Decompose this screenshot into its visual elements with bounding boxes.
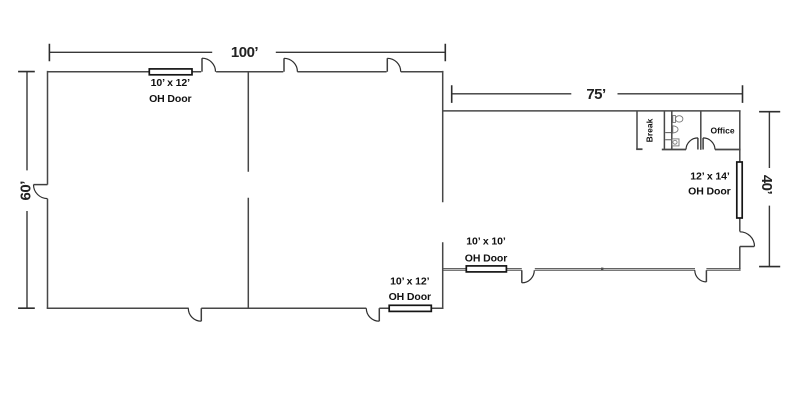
closet shelves [665,133,671,140]
bath door D10 [686,138,698,150]
vanity [672,139,679,146]
right building bottom wall (double line) [443,269,741,271]
svg-text:Office: Office [710,126,734,136]
dimension 100' ticks [49,44,445,61]
door D6 bottom wall [366,308,379,321]
break room right wall [663,111,665,150]
wall joint dot [601,268,603,270]
svg-text:OH Door: OH Door [465,252,507,264]
dimension 60' line [26,72,28,309]
door D5 bottom wall [188,308,201,321]
door D4 left wall [34,185,48,199]
svg-text:12’ x 14’: 12’ x 14’ [690,171,730,183]
door D8 bottom wall right building [522,270,535,283]
svg-text:OH Door: OH Door [149,93,191,105]
left building right wall [442,71,444,309]
dimension 75' line [452,93,743,95]
svg-text:10’ x 12’: 10’ x 12’ [390,276,430,288]
OH door 12x14 right wall (rect) [737,162,742,218]
left building interior wall [247,72,249,309]
svg-text:Break: Break [645,118,655,142]
OH door 10x12 top (rect) [149,69,192,75]
dimension 75' ticks [452,85,743,103]
door D1 top wall [202,58,216,71]
door D9 bottom wall right building [695,270,707,282]
svg-text:40’: 40’ [758,175,775,195]
toilet bowl [676,116,683,122]
sink [673,126,678,133]
dimension 40' line [768,112,770,267]
door D2 top wall [284,58,297,71]
OH door 10x12 bottom (rect) [389,305,431,311]
bath bottom wall [662,149,686,151]
bath left wall [671,111,673,150]
toilet tank [673,116,676,123]
svg-text:10’ x 12’: 10’ x 12’ [151,77,191,89]
right building right wall [739,111,741,270]
bath/office wall [700,111,702,150]
svg-text:10’ x 10’: 10’ x 10’ [466,236,506,248]
dimension 60' ticks [18,72,35,309]
left building bottom wall [47,307,444,309]
svg-text:75’: 75’ [586,86,606,103]
door D3 top wall [387,58,400,71]
dimension 100' line [49,51,445,53]
break room left wall [636,111,642,149]
dimension 40' ticks [759,112,780,267]
office bottom wall [715,149,741,151]
svg-text:OH Door: OH Door [389,291,431,303]
left building top wall [48,71,444,73]
OH door 10x10 bottom wall (rect) [466,266,506,272]
door D7 right wall [740,232,755,247]
left building left wall [47,71,49,308]
svg-text:60’: 60’ [18,181,35,201]
right building top wall [443,110,741,112]
office door D11 [703,138,715,150]
svg-text:100’: 100’ [231,44,259,61]
svg-text:OH Door: OH Door [688,186,730,198]
